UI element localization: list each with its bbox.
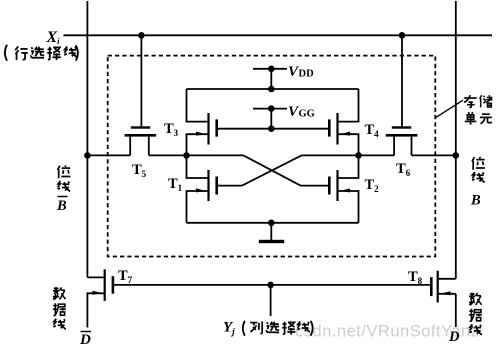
wire T5 left lead to bit line B-bar xyxy=(129,136,131,156)
wire T8 source bend xyxy=(438,293,456,295)
wire bit line B-bar (left vertical) xyxy=(86,1,88,277)
node: VGG stub dot xyxy=(268,105,275,112)
node: bit line B / T6 junction xyxy=(453,152,460,159)
storage cell dashed boundary xyxy=(108,56,436,257)
wire left trunk T3 source to node A xyxy=(187,134,208,155)
wire bit line B lower segment to D xyxy=(455,294,457,327)
label 数据线 data line (right) xyxy=(469,293,482,306)
node A xyxy=(183,152,190,159)
transistor T8 xyxy=(430,271,451,303)
node: VDD rail junction xyxy=(268,86,275,93)
transistor T3 xyxy=(196,113,218,145)
wire cross-couple diagonal node B to T1 gate xyxy=(242,155,301,185)
svg-text:D: D xyxy=(79,332,91,348)
wire left trunk T3 drain xyxy=(187,89,208,122)
wire T5 right lead to node A xyxy=(148,136,150,156)
wire T2 source to bottom rail xyxy=(338,191,359,223)
wire T1 gate lead xyxy=(218,185,242,187)
wire T6 left lead to node B xyxy=(393,136,395,156)
wire T7 source bend xyxy=(87,292,105,294)
wire T5 gate lead from X_i xyxy=(140,35,142,126)
node: X_i / T5 gate junction xyxy=(138,32,145,39)
svg-text:GG: GG xyxy=(299,109,315,120)
wire bottom rail xyxy=(187,222,359,224)
wire right trunk node B to T2 drain xyxy=(338,155,359,178)
svg-text:B: B xyxy=(470,193,481,209)
wire node A line xyxy=(87,154,130,156)
wire T7 drain bend to bit line xyxy=(87,276,104,278)
transistor T5 (horizontal) xyxy=(125,126,157,136)
wire bit line B-bar lower segment to D-bar xyxy=(86,293,89,327)
transistor T7 xyxy=(93,269,115,301)
wire right trunk T4 drain xyxy=(338,89,359,122)
svg-text:DD: DD xyxy=(299,69,315,80)
label 数据线 data line (left) xyxy=(53,287,66,300)
wire T8 drain bend to bit line xyxy=(438,278,456,280)
wire pointer line to storage cell label xyxy=(436,100,463,117)
label (行选择线) row select line xyxy=(5,45,7,61)
label 位线B (right bit line) xyxy=(472,157,485,170)
node: VDD stub dot xyxy=(268,66,275,73)
node B xyxy=(355,152,362,159)
transistor T4 xyxy=(328,113,350,145)
wire bit line B (right vertical) xyxy=(455,1,457,279)
wire cross-couple diagonal node A to T2 gate xyxy=(243,155,300,185)
wire node B line xyxy=(302,154,395,156)
wire X_i row select line xyxy=(64,34,493,36)
wire left trunk node A to T1 drain xyxy=(187,155,208,178)
wire VGG gate line T3-T4 xyxy=(217,128,330,130)
wire VDD top rail xyxy=(187,88,359,90)
ground xyxy=(259,240,284,243)
wire T6 right lead to bit line B xyxy=(411,136,413,156)
node: bit line B-bar / T5 junction xyxy=(84,152,91,159)
wire T1 source to bottom rail xyxy=(187,191,208,223)
wire ground lead xyxy=(270,223,272,240)
transistor T1 xyxy=(196,170,218,201)
transistor T6 (horizontal) xyxy=(386,126,418,136)
label 位线B-bar (left bit line) xyxy=(58,165,71,178)
node: ground junction xyxy=(268,220,275,227)
wire T6 gate lead from X_i xyxy=(401,35,403,126)
wire T2 gate lead xyxy=(301,185,329,187)
transistor T2 xyxy=(328,170,350,201)
node: Y_j junction xyxy=(267,282,274,289)
node: X_i / T6 gate junction xyxy=(399,32,406,39)
wire right trunk T4 source to node B xyxy=(338,134,359,155)
wire column select line T7-T8 gates xyxy=(113,284,430,286)
svg-text:D: D xyxy=(448,329,460,345)
node: VGG gate line junction xyxy=(268,125,275,132)
wire VGG stub xyxy=(253,108,287,110)
label 存储单元 storage cell xyxy=(464,95,476,107)
wire Y_j lead xyxy=(270,285,272,316)
wire VDD stub xyxy=(253,68,287,70)
svg-text:B: B xyxy=(56,198,67,214)
